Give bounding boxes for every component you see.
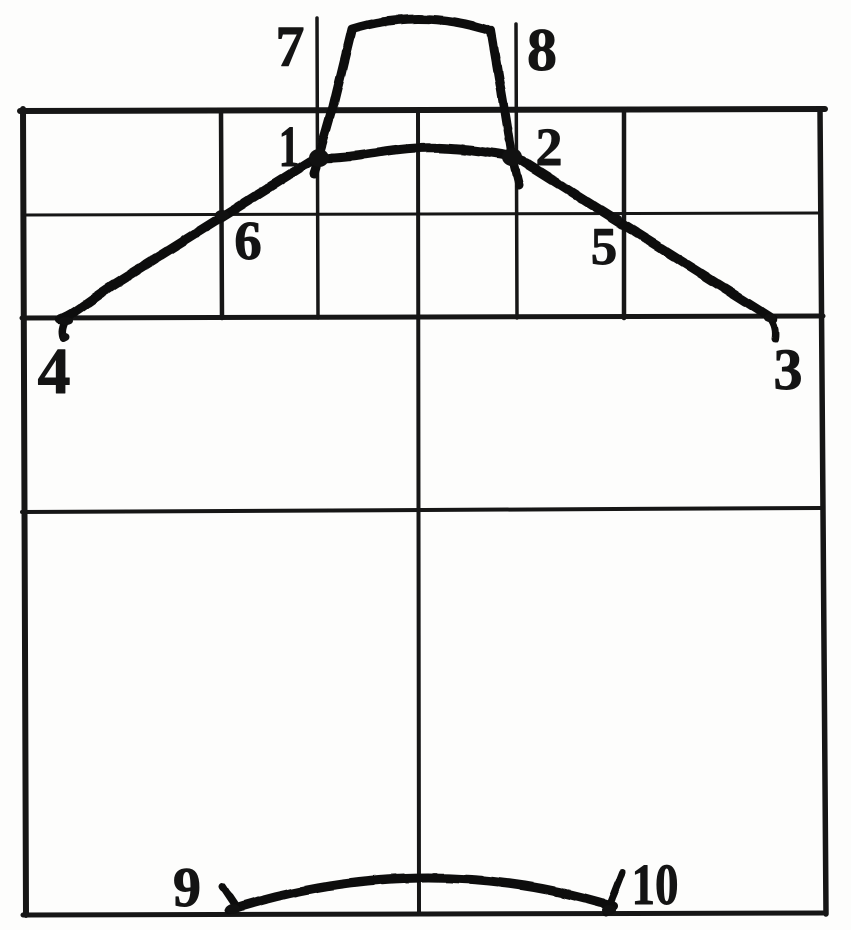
right vertical edge [820, 109, 826, 914]
svg-text:1: 1 [279, 114, 300, 178]
ink blob at point 3 [764, 314, 776, 322]
svg-text:7: 7 [276, 14, 305, 79]
horizontal construction line through 6 and 5 [22, 213, 822, 215]
hook tick at point 3 [770, 318, 775, 339]
horizontal line through 4 and 3 [22, 316, 823, 318]
ink blob at point 1 [309, 149, 329, 167]
svg-text:5: 5 [591, 218, 618, 276]
ink blob at point 10 [602, 905, 616, 915]
tick at point 9 [222, 886, 236, 907]
left vertical edge [23, 109, 26, 915]
svg-text:4: 4 [38, 335, 71, 408]
ink blob at point 5 [608, 214, 622, 224]
svg-text:3: 3 [774, 337, 803, 402]
vertical line through 6 [221, 111, 222, 318]
svg-text:6: 6 [234, 210, 262, 271]
ink blob at point 2 [502, 148, 522, 166]
shoulder slope from 2 through 5 to 3 [510, 153, 773, 319]
hook tick at point 4 [63, 319, 67, 338]
bottom arc from 9 to 10 [229, 878, 613, 910]
crown / top trapezoid outline through 7 and 8 [314, 19, 519, 185]
ink blob at point 9 [226, 904, 240, 914]
top horizontal line of draft rectangle [20, 109, 825, 111]
bottom horizontal line of draft rectangle [23, 913, 826, 915]
svg-text:10: 10 [632, 852, 679, 917]
top arc from 1 to 2 [319, 148, 508, 158]
vertical line through 5 [622, 111, 627, 318]
shoulder slope from 4 through 6 to 1 [60, 156, 319, 319]
svg-text:9: 9 [173, 857, 201, 919]
vertical line under 7 [317, 18, 318, 318]
horizontal mid line [22, 508, 821, 512]
vertical line under 8 [516, 24, 517, 318]
ink blob at point 6 [215, 210, 229, 220]
ink blob at point 4 [59, 317, 73, 325]
svg-text:2: 2 [536, 117, 563, 177]
centre vertical line [418, 111, 419, 914]
svg-text:8: 8 [527, 17, 557, 83]
tick at point 10 [606, 872, 622, 913]
